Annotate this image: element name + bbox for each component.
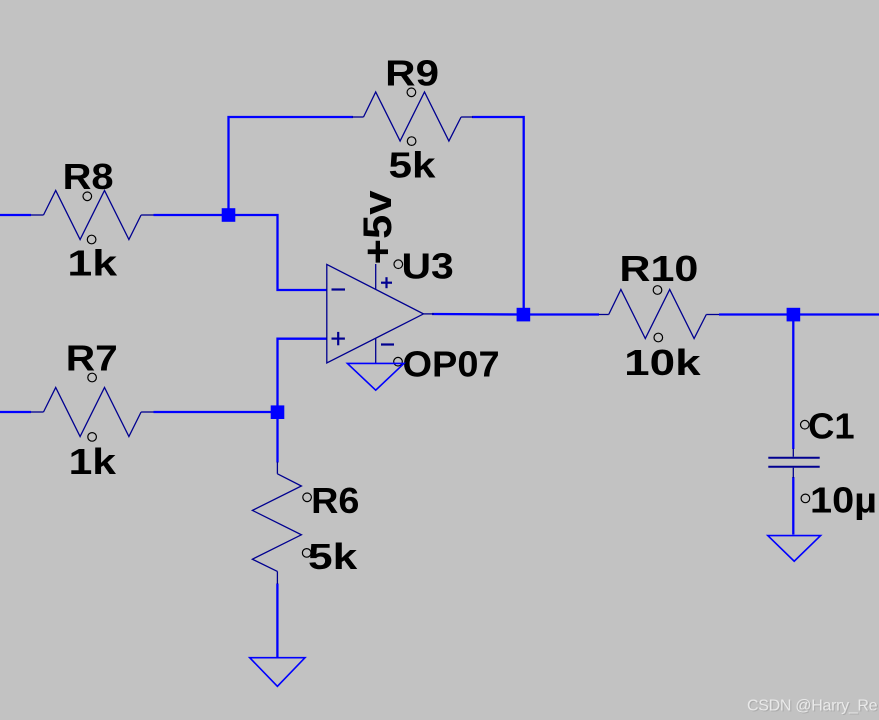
- op-amp non-inverting input plus sign: [332, 332, 345, 345]
- svg-text:OP07: OP07: [403, 344, 500, 385]
- svg-text:C1: C1: [808, 405, 855, 446]
- resistor R6 (vertical): [252, 462, 301, 584]
- resistor R8: [31, 191, 154, 240]
- svg-text:R6: R6: [311, 480, 359, 521]
- svg-text:R8: R8: [63, 156, 114, 197]
- wire R8 input from left edge: [0, 214, 31, 216]
- op-amp label marker: [394, 260, 403, 269]
- op-amp output pin: [424, 313, 435, 315]
- resistor R8 pin markers: [83, 192, 92, 201]
- svg-text:U3: U3: [402, 246, 454, 287]
- wire J3 to R10: [523, 313, 599, 315]
- svg-text:R10: R10: [619, 248, 698, 289]
- resistor R9 pin markers: [407, 88, 416, 97]
- wire R7 output to node J2: [154, 411, 278, 413]
- svg-text:1k: 1k: [67, 243, 118, 284]
- svg-text:1k: 1k: [69, 441, 118, 482]
- wire J2 up to non-inverting input: [278, 339, 327, 412]
- op-amp V+ plus sign: [381, 277, 392, 288]
- op-amp V- pin stub: [375, 339, 377, 364]
- resistor R10: [599, 290, 719, 339]
- svg-text:5k: 5k: [308, 536, 358, 577]
- op-amp V- minus sign: [381, 343, 394, 345]
- svg-text:CSDN @Harry_Re: CSDN @Harry_Re: [747, 698, 878, 715]
- wire R8 output to node J1: [154, 214, 229, 216]
- op-amp U3 body: [327, 264, 424, 363]
- wire J2 down to R6: [276, 412, 278, 463]
- wire R7 input from left edge: [0, 411, 31, 413]
- node J4: [787, 308, 801, 322]
- svg-text:+5v: +5v: [356, 190, 400, 265]
- wire op-amp output to node J3: [432, 313, 523, 316]
- op-amp value marker: [394, 357, 403, 366]
- svg-text:R7: R7: [66, 338, 118, 379]
- ground under R6: [250, 658, 305, 687]
- node J2: [271, 405, 285, 419]
- op-amp V+ pin stub: [375, 264, 377, 289]
- capacitor C1 pin markers: [801, 420, 810, 429]
- wire R6 bottom to ground: [276, 584, 278, 658]
- svg-text:10µ: 10µ: [810, 480, 877, 521]
- svg-text:10k: 10k: [624, 342, 702, 383]
- resistor R10 pin markers: [653, 286, 662, 295]
- wire J1 right to inverting input of U1: [229, 215, 327, 290]
- wire C1 bottom to ground: [792, 477, 794, 535]
- node J3: [517, 308, 531, 322]
- wire R10 to node J4: [719, 313, 793, 315]
- op-amp inverting input minus sign: [332, 288, 346, 290]
- node J1: [222, 208, 236, 222]
- resistor R7 pin markers: [88, 373, 97, 382]
- ground under op-amp: [347, 363, 404, 390]
- wire J4 to right edge: [793, 313, 879, 315]
- svg-text:R9: R9: [385, 53, 439, 94]
- wire R9 right down to op-amp output node J3: [472, 117, 524, 315]
- capacitor C1: [768, 449, 819, 479]
- resistor R7: [31, 388, 154, 437]
- wire J1 up and across to R9 left: [229, 117, 354, 216]
- ground under C1: [768, 536, 821, 562]
- wire J4 down to C1: [792, 315, 794, 449]
- svg-text:5k: 5k: [389, 144, 437, 185]
- resistor R9: [352, 92, 473, 141]
- resistor R6 pin markers: [303, 493, 312, 502]
